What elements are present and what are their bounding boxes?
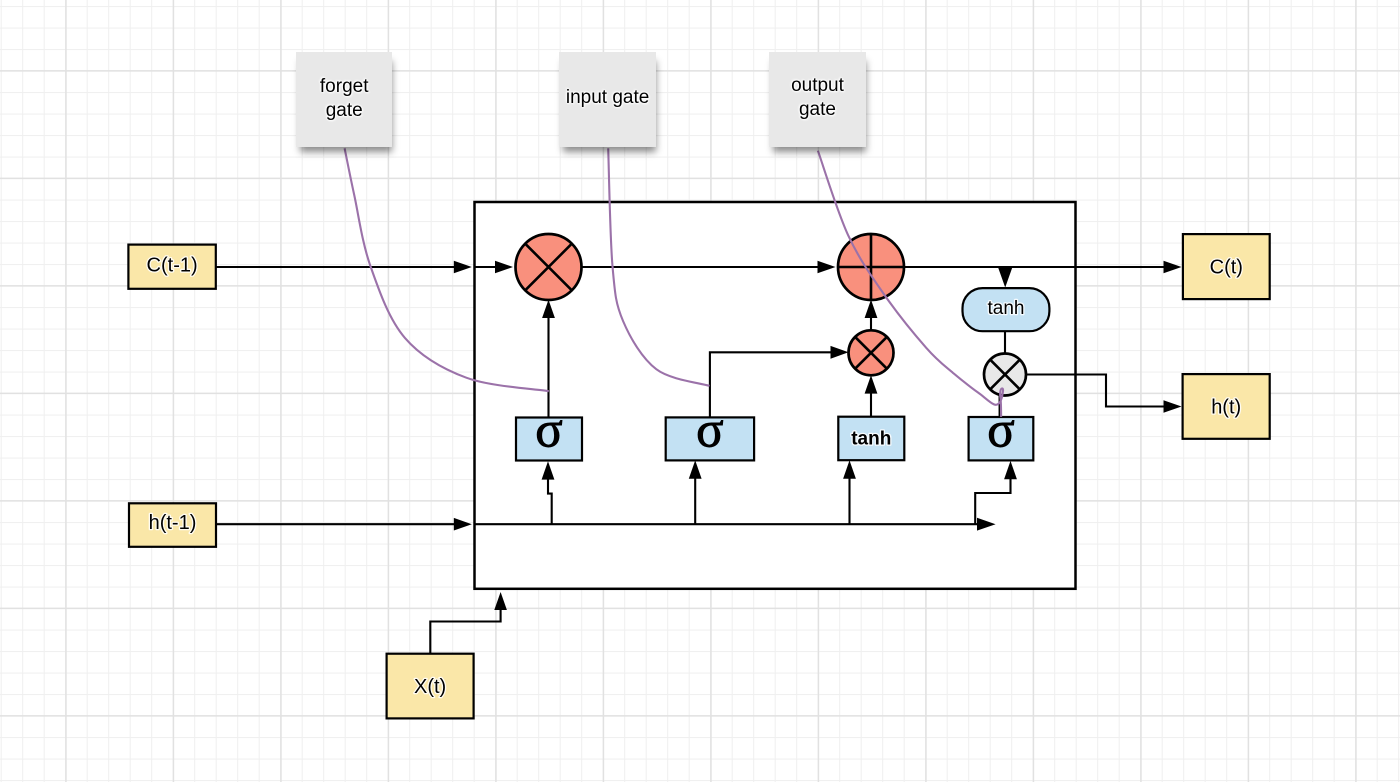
svg-text:tanh: tanh [988,298,1025,319]
arrowhead h line at cell edge [454,518,472,531]
wire C(t-1) to cell edge [216,266,455,268]
wire sigma1 to multiply circle [547,317,549,418]
svg-text:tanh: tanh [851,429,891,450]
box h(t-1) [129,503,216,547]
wire h(t-1) to cell edge [216,523,457,525]
note: input gate [559,52,656,148]
svg-text:C(t): C(t) [1210,256,1243,278]
gray multiply circle [984,354,1026,396]
arrowhead h line end inside cell [977,518,996,531]
box X(t) [387,654,474,719]
multiply circle (forget) [516,234,582,300]
svg-text:σ: σ [535,403,563,459]
tanh box [838,417,904,461]
wire tanh pill to gray multiply [1004,331,1006,354]
arrowhead C line at multiply circle [495,261,513,274]
small multiply circle [849,330,894,375]
add circle [838,234,904,300]
wire multiply circle to add circle [582,266,820,268]
tanh pill [963,288,1050,331]
svg-text:X(t): X(t) [414,676,446,698]
svg-text:C(t-1): C(t-1) [147,254,198,276]
wire X(t) to cell bottom [430,609,500,654]
box C(t) [1183,234,1270,299]
arrowhead small multiply to add [865,300,878,318]
note: forget gate [296,52,392,148]
wire small multiply to add circle [870,317,872,330]
arrowhead riser4 into sigma4 [1004,461,1017,479]
wire add circle to C(t) [903,266,1165,268]
arrowhead into add circle [818,261,836,274]
box h(t) [1183,374,1270,439]
wire riser to sigma4 [975,479,1010,525]
sigma box 4 [969,403,1034,461]
wire sigma2 elbow to small multiply [710,352,832,417]
wire cell edge to multiply circle [475,266,497,268]
arrowhead riser3 into tanh box [843,460,856,478]
svg-text:h(t): h(t) [1211,396,1241,418]
note: output gate [769,52,866,148]
arrowhead tanh box to small multiply [865,375,878,393]
arrowhead riser2 into sigma2 [689,460,702,478]
wire gray multiply to h(t) [1026,375,1165,407]
sigma box 2 [666,403,754,461]
svg-text:h(t-1): h(t-1) [149,512,197,534]
wire riser to tanh box [848,478,850,524]
box C(t-1) [128,245,215,289]
wire riser to sigma2 [694,478,696,524]
curve output gate (with pigtail) [818,151,1003,417]
arrowhead sigma2 elbow into small multiply [831,346,849,359]
sigma box 1 [516,403,582,461]
arrowhead riser1 into sigma1 [542,461,555,479]
wire sigma4 to gray multiply [999,395,1001,417]
arrowhead into tanh pill [998,268,1012,288]
svg-text:σ: σ [696,403,724,459]
curve forget gate [345,148,549,391]
arrowhead into h(t) [1164,400,1182,413]
arrowhead sigma1 to multiply [542,300,555,318]
arrowhead C line at cell edge [454,261,472,274]
curve input gate [608,148,709,386]
wire riser to sigma1 [548,479,552,524]
LSTM cell outer rectangle [475,202,1076,589]
arrowhead into C(t) [1164,261,1182,274]
arrowhead X(t) into cell bottom [494,592,507,610]
wire h(t-1) inside cell [475,523,979,525]
wire tanh box to small multiply [870,393,872,417]
